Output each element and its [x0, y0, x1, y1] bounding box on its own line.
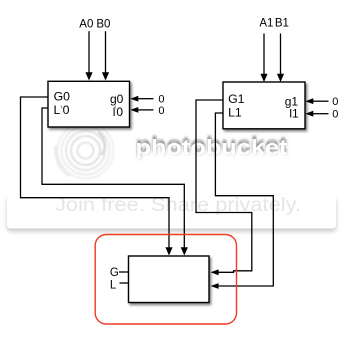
watermark: join-free band	[7, 194, 336, 229]
wire: L1 output from U1 routed to right L input of U2	[211, 113, 274, 289]
block U0 (bit 0 cell)	[48, 81, 130, 127]
wire: l1 constant-0 input arrow	[305, 111, 328, 117]
svg-text:l1: l1	[289, 106, 299, 120]
wire: G1 output from U1 routed to right G input of U2	[196, 100, 252, 275]
wire: A1 input arrow into U1	[260, 34, 267, 83]
svg-text:L: L	[110, 279, 117, 291]
svg-text:0: 0	[158, 105, 164, 117]
svg-text:G: G	[110, 267, 119, 279]
wire: G0 output from U0 routed to top input of U2	[21, 97, 173, 256]
svg-text:A0: A0	[79, 18, 93, 30]
watermark: photobucket swirl logo	[56, 123, 114, 179]
wire: B0 input arrow into U0	[102, 31, 109, 80]
wire: g0 constant-0 input arrow	[130, 96, 153, 102]
svg-text:A1: A1	[259, 18, 273, 30]
svg-text:B1: B1	[275, 18, 289, 30]
svg-text:G0: G0	[54, 90, 71, 104]
svg-text:0: 0	[332, 108, 338, 120]
svg-text:photobucket: photobucket	[136, 136, 288, 160]
svg-text:0: 0	[332, 96, 338, 108]
svg-text:0: 0	[116, 105, 123, 119]
svg-text:B0: B0	[96, 18, 110, 30]
wire: G stub into U2	[119, 271, 129, 273]
wire: l0 constant-0 input arrow	[130, 107, 153, 113]
block U2 (combine cell)	[129, 256, 210, 303]
svg-text:0: 0	[63, 103, 70, 117]
wire: L0 output from U0 routed to top input of U2	[42, 108, 188, 256]
wire: L stub into U2	[120, 282, 129, 284]
svg-text:L1: L1	[228, 106, 242, 120]
wire: g1 constant-0 input arrow	[305, 98, 328, 104]
wire: B1 input arrow into U1	[277, 34, 284, 83]
highlight box (red rounded rectangle)	[95, 235, 236, 325]
wire: A0 input arrow into U0	[85, 31, 92, 80]
block U1 (bit 1 cell)	[223, 82, 305, 129]
svg-text:L: L	[54, 103, 61, 117]
svg-text:G1: G1	[228, 92, 245, 106]
svg-text:0: 0	[158, 93, 164, 105]
